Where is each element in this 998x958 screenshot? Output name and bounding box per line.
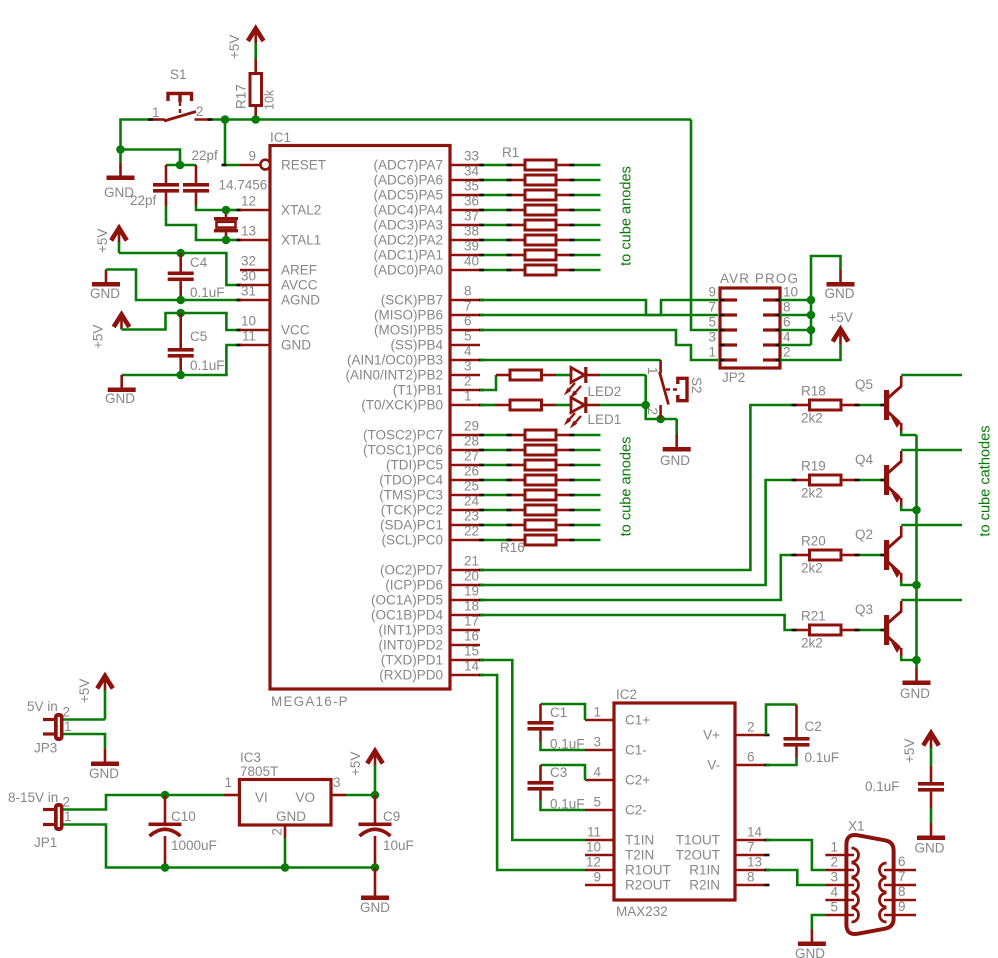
svg-text:8: 8 <box>464 284 472 299</box>
pin 8 (SCK)PB7 <box>381 284 480 308</box>
svg-text:GND: GND <box>276 809 306 824</box>
svg-text:1: 1 <box>152 105 160 120</box>
pin 3 C1- <box>585 735 647 758</box>
wire JP2 pin10 GND <box>780 299 811 302</box>
switch S1 <box>150 67 212 121</box>
pin 5 C2- <box>585 795 647 818</box>
LED LED2 <box>567 367 622 399</box>
pin 1 C1+ <box>585 705 650 728</box>
wire GND junction to 22pf caps top <box>121 150 181 166</box>
svg-text:C1: C1 <box>550 705 567 720</box>
wire nibs left side <box>148 120 242 346</box>
svg-text:8: 8 <box>783 300 791 315</box>
pin 4 (AIN1/OC0)PB3 <box>347 344 480 368</box>
svg-text:+5V: +5V <box>95 229 110 253</box>
ground (JP3) <box>89 749 119 781</box>
svg-text:VI: VI <box>255 790 268 805</box>
capacitor 22pf (left) <box>130 165 179 208</box>
svg-text:(TOSC2)PC7: (TOSC2)PC7 <box>363 428 443 443</box>
svg-text:(ADC3)PA3: (ADC3)PA3 <box>373 218 443 233</box>
pin 31 AGND <box>240 299 270 302</box>
svg-text:36: 36 <box>464 194 479 209</box>
svg-text:1: 1 <box>224 775 232 790</box>
svg-text:2k2: 2k2 <box>801 636 823 651</box>
wire JP3 pin1 GND <box>64 734 106 749</box>
svg-text:GND: GND <box>360 900 390 915</box>
ground (C5) <box>105 375 136 406</box>
svg-text:(AIN0/INT2)PB2: (AIN0/INT2)PB2 <box>345 368 443 383</box>
pin 6 V- <box>707 750 769 773</box>
pin 12 R1OUT <box>585 855 671 878</box>
svg-text:22pf: 22pf <box>192 148 219 163</box>
svg-text:2: 2 <box>747 720 755 735</box>
svg-text:(ADC4)PA4: (ADC4)PA4 <box>373 203 443 218</box>
resistor R3 (LED1) <box>495 400 556 410</box>
svg-text:3: 3 <box>830 870 838 885</box>
pin 3 X1 <box>825 870 858 893</box>
svg-text:1: 1 <box>593 705 601 720</box>
svg-text:R1OUT: R1OUT <box>625 863 671 878</box>
svg-text:(ADC7)PA7: (ADC7)PA7 <box>373 158 443 173</box>
wire collector Q2 (to cube cathodes) <box>901 524 962 527</box>
wire R1IN to X1 pin3 <box>766 870 825 885</box>
junction <box>161 791 170 800</box>
svg-text:C4: C4 <box>190 255 208 270</box>
junction <box>176 161 185 170</box>
pin 5 X1 <box>825 900 858 923</box>
svg-text:3: 3 <box>708 330 716 345</box>
wire emitter Q3 <box>901 656 916 660</box>
svg-text:17: 17 <box>464 614 479 629</box>
svg-text:(INT0)PD2: (INT0)PD2 <box>378 638 443 653</box>
svg-text:10k: 10k <box>263 89 277 110</box>
wire JP1 pin2 to VI <box>64 795 225 810</box>
svg-text:4: 4 <box>593 765 601 780</box>
junction <box>912 581 921 590</box>
junction <box>222 236 231 245</box>
junction <box>176 296 185 305</box>
svg-text:GND: GND <box>105 391 135 406</box>
svg-text:6: 6 <box>898 854 906 869</box>
svg-text:0.1uF: 0.1uF <box>190 285 225 300</box>
pin 15 (TXD)PD1 <box>381 644 480 668</box>
ground (power rail) <box>360 868 390 916</box>
pin 14 T1OUT <box>676 825 770 848</box>
junction <box>807 296 816 305</box>
svg-text:40: 40 <box>464 254 479 269</box>
svg-text:10: 10 <box>586 840 601 855</box>
svg-text:(SDA)PC1: (SDA)PC1 <box>380 518 443 533</box>
pin 19 (OC1A)PD5 <box>371 584 480 608</box>
resistor R19 <box>795 459 856 501</box>
svg-text:39: 39 <box>464 239 479 254</box>
wire cap to GND <box>930 808 933 823</box>
svg-text:X1: X1 <box>848 819 865 834</box>
wire S1 pin1 to GND junction <box>121 120 150 150</box>
svg-text:R1: R1 <box>502 145 519 160</box>
pin 20 (ICP)PD6 <box>385 569 480 593</box>
svg-text:8: 8 <box>898 884 906 899</box>
svg-text:GND: GND <box>900 686 930 701</box>
svg-text:(ADC5)PA5: (ADC5)PA5 <box>373 188 443 203</box>
pin 9 X1 <box>880 899 917 922</box>
wire JP2 pin2 +5V <box>780 344 841 360</box>
pin 2 GND (7805) <box>270 825 286 838</box>
power +5V (C5) <box>91 315 130 350</box>
svg-text:6: 6 <box>783 315 791 330</box>
ground (S1) <box>104 150 135 201</box>
svg-text:Q4: Q4 <box>855 452 874 467</box>
svg-text:GND: GND <box>89 766 119 781</box>
pin 5 JP2 <box>708 315 737 331</box>
svg-text:5V in: 5V in <box>27 699 58 714</box>
pin 2 V+ <box>703 720 769 743</box>
svg-text:7805T: 7805T <box>240 764 278 779</box>
pin 9 RESET bubble <box>240 160 270 170</box>
pin 17 (INT1)PD3 <box>378 614 480 638</box>
wire base Q4 <box>856 479 884 482</box>
wire PD7 to R18 <box>480 405 795 570</box>
svg-text:(TMS)PC3: (TMS)PC3 <box>379 488 443 503</box>
pin 18 (OC1B)PD4 <box>371 599 480 623</box>
pin 8 R2IN <box>689 870 769 893</box>
pin 1 X1 <box>825 840 858 863</box>
svg-text:T1OUT: T1OUT <box>676 833 720 848</box>
svg-text:9: 9 <box>248 149 256 164</box>
capacitor 22pf (right) <box>183 148 218 205</box>
wire MISO PB6 to JP2 pin9 <box>480 300 718 315</box>
junction <box>656 415 665 424</box>
svg-text:AGND: AGND <box>281 293 320 308</box>
pin 6 X1 <box>880 854 917 877</box>
svg-text:C2+: C2+ <box>625 773 650 788</box>
resistor R21 <box>795 609 856 651</box>
svg-text:1000uF: 1000uF <box>171 838 217 853</box>
svg-text:S1: S1 <box>170 67 187 82</box>
svg-text:23: 23 <box>464 509 479 524</box>
svg-text:2: 2 <box>830 855 838 870</box>
capacitor C5 <box>168 313 225 375</box>
svg-text:28: 28 <box>464 434 479 449</box>
svg-text:JP3: JP3 <box>34 741 57 756</box>
wire emitter rail <box>915 435 918 661</box>
svg-text:GND: GND <box>795 946 825 958</box>
pin 1 JP2 <box>708 345 737 361</box>
pin 14 (RXD)PD0 <box>379 659 480 683</box>
svg-text:(INT1)PD3: (INT1)PD3 <box>378 623 443 638</box>
wire T1OUT to X1 pin2 <box>766 840 825 870</box>
wire 22pf top node <box>166 164 196 167</box>
wire top rail (S1/R17/RESET/JP2) <box>211 118 691 121</box>
svg-text:T1IN: T1IN <box>625 833 654 848</box>
wire +5V to VCC <box>122 313 241 330</box>
pin 12 XTAL2 <box>240 209 270 212</box>
pin 5 (SS)PB4 <box>390 329 480 353</box>
svg-text:4: 4 <box>464 344 472 359</box>
pin 35 (ADC5)PA5 <box>373 179 480 203</box>
svg-text:21: 21 <box>464 554 479 569</box>
svg-text:24: 24 <box>464 494 480 509</box>
svg-text:R18: R18 <box>801 384 826 399</box>
pin 28 (TOSC1)PC6 <box>363 434 480 458</box>
svg-text:Q5: Q5 <box>855 377 873 392</box>
svg-text:(ADC0)PA0: (ADC0)PA0 <box>373 263 443 278</box>
svg-text:GND: GND <box>660 453 690 468</box>
pin 4 C2+ <box>585 765 650 788</box>
wire emitter Q4 <box>901 506 916 510</box>
wire RESET to JP2 pin5 <box>691 120 718 331</box>
svg-text:JP1: JP1 <box>34 835 57 850</box>
svg-text:14: 14 <box>747 825 763 840</box>
pin 10 JP2 <box>763 285 798 301</box>
wire 22pf right bottom to XTAL2 <box>196 205 226 210</box>
pin 24 (TCK)PC2 <box>381 494 480 518</box>
LED LED1 <box>567 397 622 427</box>
wire RXD PD0 to R1OUT <box>480 675 585 870</box>
capacitor C1 <box>528 704 586 752</box>
pin 6 JP2 <box>763 315 791 331</box>
svg-text:0.1uF: 0.1uF <box>865 779 900 794</box>
svg-text:R17: R17 <box>234 84 249 109</box>
svg-text:0.1uF: 0.1uF <box>190 358 225 373</box>
connector X1 DB9 <box>846 819 893 935</box>
pin 26 (TDO)PC4 <box>379 464 480 488</box>
wire PB1 jog <box>480 375 496 390</box>
svg-text:V+: V+ <box>703 728 720 743</box>
svg-text:(OC1B)PD4: (OC1B)PD4 <box>371 608 444 623</box>
svg-text:9: 9 <box>593 870 601 885</box>
svg-text:S2: S2 <box>689 377 704 394</box>
svg-text:to cube cathodes: to cube cathodes <box>978 425 994 536</box>
junction <box>176 371 185 380</box>
svg-text:+5V: +5V <box>829 310 853 325</box>
svg-text:0.1uF: 0.1uF <box>550 797 585 812</box>
svg-text:to cube anodes: to cube anodes <box>619 166 635 266</box>
svg-text:4: 4 <box>830 885 838 900</box>
wire collector Q3 (to cube cathodes) <box>901 599 962 602</box>
svg-text:3: 3 <box>333 775 341 790</box>
junction <box>176 249 185 258</box>
svg-text:C1+: C1+ <box>625 713 650 728</box>
wire base Q2 <box>856 554 884 557</box>
svg-text:IC2: IC2 <box>616 687 637 702</box>
svg-text:XTAL1: XTAL1 <box>281 233 321 248</box>
ground (X1) <box>795 929 826 958</box>
pin 32 AREF <box>240 269 270 272</box>
svg-text:5: 5 <box>708 315 716 330</box>
pin 21 (OC2)PD7 <box>380 554 480 578</box>
svg-text:0.1uF: 0.1uF <box>550 737 585 752</box>
svg-text:15: 15 <box>464 644 479 659</box>
wire R2 to LED2 <box>556 374 570 377</box>
wire JP2 pin6 GND <box>780 329 811 332</box>
pin 8 X1 <box>880 884 917 907</box>
svg-text:8: 8 <box>747 870 755 885</box>
junction <box>222 206 231 215</box>
pin 34 (ADC6)PA6 <box>373 164 480 188</box>
svg-text:2: 2 <box>196 104 204 119</box>
pin 1 (T0/XCK)PB0 <box>361 389 480 413</box>
pin 23 (SDA)PC1 <box>380 509 480 533</box>
svg-text:11: 11 <box>587 825 601 840</box>
pin 13 R1IN <box>689 855 769 878</box>
switch S2 <box>645 360 704 419</box>
svg-text:Q2: Q2 <box>855 527 873 542</box>
junction <box>281 863 290 872</box>
svg-text:RESET: RESET <box>281 158 326 173</box>
svg-text:(OC2)PD7: (OC2)PD7 <box>380 563 443 578</box>
svg-text:LED2: LED2 <box>588 384 622 399</box>
svg-text:GND: GND <box>90 286 120 301</box>
svg-text:1: 1 <box>464 389 472 404</box>
svg-text:8-15V in: 8-15V in <box>8 790 58 805</box>
wire R3 to LED1 <box>556 404 570 407</box>
power +5V (C4) <box>95 228 127 253</box>
svg-text:33: 33 <box>464 149 479 164</box>
wire base Q5 <box>856 404 884 407</box>
svg-text:25: 25 <box>464 479 479 494</box>
wire XTAL2 <box>226 209 240 212</box>
pin 3 JP2 <box>708 330 737 346</box>
wire LED1 cathode <box>600 404 646 407</box>
svg-text:(RXD)PD0: (RXD)PD0 <box>379 668 443 683</box>
transistor Q5 <box>855 376 902 432</box>
pin 2 (T1)PB1 <box>393 374 480 398</box>
svg-text:(ADC6)PA6: (ADC6)PA6 <box>373 173 443 188</box>
svg-text:2k2: 2k2 <box>801 561 823 576</box>
pin 10 VCC <box>240 329 270 332</box>
svg-text:5: 5 <box>830 900 838 915</box>
connector JP1 <box>8 790 72 850</box>
resistor network R16 <box>479 430 601 555</box>
svg-text:14: 14 <box>464 659 480 674</box>
svg-text:2: 2 <box>270 828 285 836</box>
svg-text:VO: VO <box>295 790 315 805</box>
pin 30 AVCC <box>240 284 270 287</box>
wire SCK PB7 to JP2 pin7 <box>480 300 718 315</box>
svg-text:1: 1 <box>64 809 72 824</box>
svg-text:+5V: +5V <box>227 35 242 59</box>
svg-text:11: 11 <box>242 329 256 344</box>
junction <box>176 309 185 318</box>
resistor network R1 <box>479 145 601 275</box>
pin 2 JP2 <box>763 345 791 361</box>
wire collector Q4 (to cube cathodes) <box>901 449 962 452</box>
pin 8 JP2 <box>763 300 791 316</box>
svg-text:(SCL)PC0: (SCL)PC0 <box>381 533 443 548</box>
svg-text:10uF: 10uF <box>383 838 414 853</box>
svg-text:T2OUT: T2OUT <box>676 848 720 863</box>
resistor R18 <box>795 384 856 426</box>
pin 7 JP2 <box>708 300 737 316</box>
svg-text:19: 19 <box>464 584 479 599</box>
pin 16 (INT0)PD2 <box>378 629 480 653</box>
svg-text:9: 9 <box>708 285 716 300</box>
svg-text:1: 1 <box>645 367 660 375</box>
svg-text:T2IN: T2IN <box>625 848 654 863</box>
pin 7 (MISO)PB6 <box>374 299 480 323</box>
ground (AGND) <box>90 270 120 302</box>
svg-text:V-: V- <box>707 758 720 773</box>
resistor R20 <box>795 534 856 576</box>
svg-text:R2IN: R2IN <box>689 878 720 893</box>
svg-text:(MISO)PB6: (MISO)PB6 <box>374 308 443 323</box>
junction <box>912 656 921 665</box>
wire GND pin11 net <box>122 345 240 375</box>
svg-text:+5V: +5V <box>77 679 92 703</box>
ground (JP2) <box>825 270 855 302</box>
svg-text:C1-: C1- <box>625 743 647 758</box>
pin 13 XTAL1 <box>240 239 270 242</box>
connector JP2 AVR_PROG <box>720 271 799 385</box>
svg-text:37: 37 <box>464 209 479 224</box>
svg-text:7: 7 <box>898 869 906 884</box>
transistor Q3 <box>855 601 902 657</box>
junction <box>807 311 816 320</box>
svg-text:29: 29 <box>464 419 479 434</box>
pin 39 (ADC1)PA1 <box>373 239 480 263</box>
pin 7 X1 <box>880 869 917 892</box>
ground (transistors) <box>900 660 931 701</box>
svg-text:12: 12 <box>586 855 601 870</box>
svg-text:(TCK)PC2: (TCK)PC2 <box>381 503 443 518</box>
svg-text:5: 5 <box>593 795 601 810</box>
power +5V (JP2) <box>829 310 853 344</box>
power +5V (R17 top) <box>227 29 264 61</box>
svg-text:2: 2 <box>63 795 71 810</box>
svg-text:7: 7 <box>464 299 472 314</box>
power +5V (7805) <box>348 751 383 795</box>
wire TXD PD1 to T1IN <box>480 660 585 840</box>
svg-text:3: 3 <box>464 359 472 374</box>
wire XTAL1 <box>226 239 240 242</box>
svg-text:7: 7 <box>708 300 716 315</box>
svg-text:16: 16 <box>464 629 479 644</box>
wire LED cathodes to S2 <box>646 375 677 419</box>
svg-text:+5V: +5V <box>91 325 106 349</box>
wire X1 pin5 to GND <box>812 915 826 929</box>
svg-text:(T1)PB1: (T1)PB1 <box>393 383 443 398</box>
wire PD6 to R19 <box>480 480 795 585</box>
pin 40 (ADC0)PA0 <box>373 254 480 278</box>
pin 4 JP2 <box>763 330 791 346</box>
svg-text:12: 12 <box>241 194 256 209</box>
svg-text:9: 9 <box>898 899 906 914</box>
svg-text:22: 22 <box>464 524 479 539</box>
svg-text:18: 18 <box>464 599 479 614</box>
pin 6 (MOSI)PB5 <box>374 314 480 338</box>
wire JP1 pin1 to ground rail <box>64 825 376 868</box>
svg-text:(AIN1/OC0)PB3: (AIN1/OC0)PB3 <box>347 353 443 368</box>
pin 25 (TMS)PC3 <box>379 479 480 503</box>
ground (0.1uF cap) <box>915 823 946 856</box>
junction <box>807 326 816 335</box>
resistor R2 (LED2) <box>496 370 556 380</box>
IC IC2 MAX232 <box>614 687 735 919</box>
svg-text:(OC1A)PD5: (OC1A)PD5 <box>371 593 443 608</box>
resistor R17 <box>234 59 277 120</box>
pin 3 VO <box>331 775 346 795</box>
svg-text:(TXD)PD1: (TXD)PD1 <box>381 653 443 668</box>
svg-text:13: 13 <box>747 855 762 870</box>
pin 29 (TOSC2)PC7 <box>363 419 480 443</box>
svg-text:R16: R16 <box>500 540 525 555</box>
pin 37 (ADC3)PA3 <box>373 209 480 233</box>
svg-text:C10: C10 <box>171 809 196 824</box>
svg-text:34: 34 <box>464 164 480 179</box>
svg-text:7: 7 <box>747 840 755 855</box>
pin 36 (ADC4)PA4 <box>373 194 480 218</box>
